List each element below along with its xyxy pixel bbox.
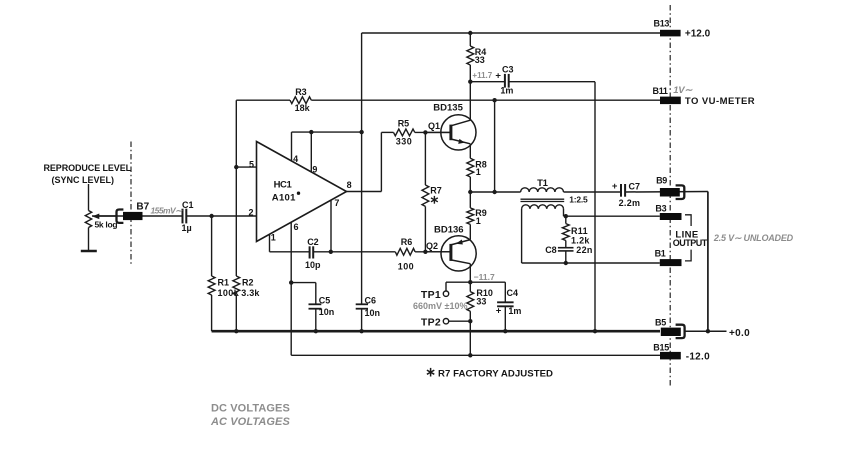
svg-text:1: 1	[476, 167, 481, 177]
svg-text:C8: C8	[545, 245, 557, 255]
svg-text:+: +	[495, 71, 501, 82]
svg-text:R6: R6	[401, 237, 413, 247]
svg-text:10p: 10p	[305, 260, 321, 270]
svg-text:R7: R7	[430, 185, 442, 195]
svg-text:2: 2	[249, 208, 254, 218]
svg-text:R1: R1	[218, 277, 230, 287]
svg-text:B9: B9	[656, 176, 667, 186]
svg-text:+: +	[612, 181, 618, 192]
svg-text:100: 100	[398, 262, 414, 272]
svg-text:HC1: HC1	[274, 179, 293, 190]
svg-text:TP2: TP2	[421, 317, 441, 329]
svg-text:B1: B1	[655, 249, 666, 259]
svg-text:1:2.5: 1:2.5	[569, 194, 588, 204]
svg-text:C7: C7	[629, 181, 641, 191]
svg-text:B13: B13	[654, 18, 670, 28]
svg-text:100k: 100k	[218, 288, 240, 298]
svg-text:1V∼: 1V∼	[673, 85, 693, 96]
svg-text:Q1: Q1	[428, 121, 440, 131]
svg-text:4: 4	[293, 154, 298, 164]
svg-text:5k log: 5k log	[95, 220, 118, 230]
svg-text:REPRODUCE LEVEL: REPRODUCE LEVEL	[44, 163, 132, 173]
svg-text:DC VOLTAGES: DC VOLTAGES	[211, 403, 290, 415]
svg-text:R11: R11	[571, 226, 588, 236]
svg-text:155mV∼: 155mV∼	[151, 205, 184, 215]
svg-text:10n: 10n	[319, 307, 335, 317]
svg-text:8: 8	[347, 180, 352, 190]
svg-text:1: 1	[476, 216, 481, 226]
svg-text:1m: 1m	[508, 306, 521, 316]
svg-text:B11: B11	[653, 86, 668, 96]
svg-text:+: +	[496, 306, 502, 317]
svg-text:B7: B7	[136, 202, 149, 213]
svg-text:TO VU-METER: TO VU-METER	[685, 96, 755, 107]
svg-text:BD136: BD136	[434, 225, 464, 236]
svg-text:2.2m: 2.2m	[619, 198, 641, 208]
svg-text:1m: 1m	[500, 86, 513, 96]
svg-text:B3: B3	[655, 203, 666, 213]
svg-text:C5: C5	[319, 295, 331, 305]
svg-text:3.3k: 3.3k	[241, 288, 260, 298]
svg-text:TP1: TP1	[421, 289, 441, 301]
svg-text:33: 33	[476, 297, 486, 307]
svg-text:−11.7: −11.7	[474, 272, 495, 282]
svg-text:OUTPUT: OUTPUT	[673, 238, 708, 248]
svg-text:10n: 10n	[365, 308, 381, 318]
svg-text:330: 330	[396, 136, 413, 146]
svg-text:R7 FACTORY ADJUSTED: R7 FACTORY ADJUSTED	[438, 369, 553, 380]
svg-text:22n: 22n	[576, 245, 592, 255]
svg-text:660mV ±10%: 660mV ±10%	[413, 301, 467, 311]
svg-text:-12.0: -12.0	[686, 351, 710, 362]
svg-text:9: 9	[312, 165, 317, 175]
svg-text:33: 33	[475, 55, 485, 65]
svg-text:B5: B5	[655, 317, 666, 327]
svg-text:7: 7	[334, 198, 339, 208]
svg-text:AC VOLTAGES: AC VOLTAGES	[210, 416, 290, 428]
svg-text:R2: R2	[242, 277, 254, 287]
svg-text:C1: C1	[182, 200, 194, 210]
svg-text:C3: C3	[502, 65, 514, 75]
svg-text:C2: C2	[307, 237, 319, 247]
svg-text:5: 5	[249, 159, 254, 169]
svg-text:C4: C4	[507, 288, 519, 298]
svg-text:+12.0: +12.0	[685, 28, 711, 39]
svg-text:BD135: BD135	[433, 102, 463, 113]
svg-text:Q2: Q2	[426, 241, 438, 251]
svg-text:18k: 18k	[295, 103, 311, 113]
svg-text:T1: T1	[537, 178, 549, 189]
svg-text:6: 6	[294, 222, 299, 232]
svg-text:+0.0: +0.0	[729, 328, 750, 339]
svg-text:R5: R5	[398, 118, 410, 128]
svg-text:1µ: 1µ	[182, 223, 192, 233]
svg-text:A101: A101	[272, 192, 296, 203]
svg-text:(SYNC LEVEL): (SYNC LEVEL)	[52, 175, 115, 185]
svg-text:B15: B15	[653, 342, 669, 352]
svg-text:1.2k: 1.2k	[571, 236, 590, 246]
svg-text:R3: R3	[295, 87, 307, 97]
svg-text:1: 1	[271, 233, 276, 243]
svg-text:+11.7: +11.7	[472, 71, 492, 80]
svg-text:C6: C6	[365, 295, 377, 305]
svg-text:2.5 V∼ UNLOADED: 2.5 V∼ UNLOADED	[713, 233, 794, 243]
